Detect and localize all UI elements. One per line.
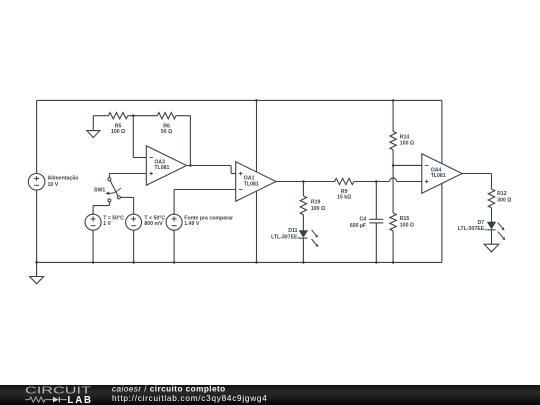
svg-text:100 Ω: 100 Ω <box>311 206 325 212</box>
svg-text:300 Ω: 300 Ω <box>497 197 511 203</box>
svg-text:R15: R15 <box>400 216 410 222</box>
svg-text:http://circuitlab.com/c3qy84c9: http://circuitlab.com/c3qy84c9jgwg4 <box>112 394 268 403</box>
svg-text:50 Ω: 50 Ω <box>161 129 172 135</box>
svg-text:LAB: LAB <box>68 395 92 405</box>
svg-text:D11: D11 <box>288 228 297 234</box>
svg-text:Alimentação: Alimentação <box>48 176 79 182</box>
svg-text:100 Ω: 100 Ω <box>400 222 414 228</box>
svg-text:600 µF: 600 µF <box>350 223 366 229</box>
svg-text:SW1: SW1 <box>94 188 105 194</box>
svg-text:LTL-307EE: LTL-307EE <box>271 234 298 240</box>
svg-text:10 V: 10 V <box>48 182 59 188</box>
svg-text:100 Ω: 100 Ω <box>111 129 125 135</box>
svg-text:100 Ω: 100 Ω <box>400 141 414 147</box>
svg-text:TL081: TL081 <box>244 181 259 187</box>
svg-text:caioesr / circuito completo: caioesr / circuito completo <box>112 385 226 394</box>
svg-text:R19: R19 <box>311 200 321 206</box>
svg-text:TL081: TL081 <box>154 165 169 171</box>
svg-text:R12: R12 <box>497 191 507 197</box>
svg-text:LTL-307EE: LTL-307EE <box>458 226 485 232</box>
svg-text:1 V: 1 V <box>103 221 111 227</box>
svg-text:C4: C4 <box>359 216 366 222</box>
svg-text:1.49 V: 1.49 V <box>184 221 200 227</box>
svg-text:R14: R14 <box>400 134 410 140</box>
svg-text:15 kΩ: 15 kΩ <box>337 195 351 201</box>
svg-text:800 mV: 800 mV <box>144 221 163 227</box>
svg-text:TL081: TL081 <box>431 173 446 179</box>
svg-text:D7: D7 <box>478 220 485 226</box>
